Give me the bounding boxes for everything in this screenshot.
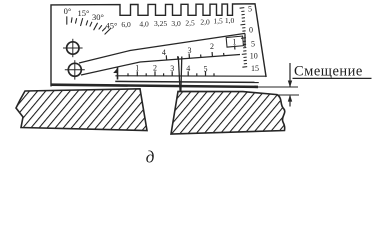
svg-text:Смещение: Смещение: [294, 64, 363, 80]
zero end tall tick: [117, 67, 119, 80]
svg-text:2: 2: [153, 64, 157, 73]
zero pointer wedge: [113, 68, 117, 73]
right plate top edge extension line: [277, 94, 299, 96]
right vertical scale ticks: [240, 8, 248, 68]
arm (movable ruler): [79, 33, 245, 75]
bottom scale numbers: [135, 64, 207, 74]
svg-text:15: 15: [251, 64, 259, 73]
svg-text:10: 10: [250, 51, 258, 60]
svg-text:1: 1: [233, 37, 237, 46]
svg-text:3: 3: [188, 46, 192, 55]
svg-text:3,25: 3,25: [154, 19, 167, 28]
gauge base thick line: [51, 85, 258, 87]
arm scale numbers: [162, 37, 237, 57]
svg-text:0°: 0°: [64, 6, 72, 16]
gauge lower edge line: [116, 81, 258, 82]
left workpiece (hatched): [16, 89, 147, 131]
svg-text:1: 1: [135, 64, 139, 73]
probe needle: [178, 57, 182, 92]
base extension line to dimension: [258, 86, 298, 88]
dimension up arrow: [288, 95, 292, 107]
right vertical scale labels: [248, 5, 259, 73]
fan tick 15deg: [81, 19, 83, 26]
svg-text:1,0: 1,0: [225, 16, 235, 25]
svg-text:3,0: 3,0: [171, 19, 181, 28]
comb value labels: [121, 16, 234, 29]
slider window on arm end: [226, 36, 243, 47]
bottom scale baseline ticks: [118, 67, 215, 80]
pivot hole upper: [63, 39, 83, 57]
svg-text:5: 5: [251, 40, 255, 49]
dimension down arrow: [288, 63, 292, 87]
svg-text:д: д: [146, 148, 155, 167]
gauge bottom face line / scale baseline: [116, 75, 266, 77]
svg-text:45°: 45°: [106, 21, 118, 31]
angle labels: [64, 6, 118, 30]
pivot hole lower: [65, 60, 85, 79]
svg-text:2,5: 2,5: [185, 18, 195, 27]
svg-text:3: 3: [170, 64, 174, 73]
gauge body outline: [51, 4, 266, 86]
svg-text:5: 5: [204, 64, 208, 73]
svg-text:2,0: 2,0: [200, 17, 210, 26]
svg-text:5: 5: [248, 5, 252, 14]
svg-text:0: 0: [249, 25, 253, 34]
right workpiece (hatched): [171, 91, 285, 134]
fan minor ticks 20,25: [86, 21, 87, 25]
angle fan tick 0deg: [67, 17, 111, 34]
fan tick 30deg: [94, 23, 98, 30]
svg-text:6,0: 6,0: [121, 20, 131, 29]
underline of label: [293, 77, 372, 79]
svg-text:2: 2: [210, 42, 214, 51]
svg-text:30°: 30°: [92, 12, 104, 22]
fan tick 45deg: [105, 29, 111, 34]
svg-text:15°: 15°: [78, 8, 90, 18]
arm scale ticks: [166, 46, 235, 60]
svg-text:1,5: 1,5: [213, 17, 223, 26]
fan minor ticks 5,10: [70, 18, 73, 23]
svg-text:4: 4: [186, 64, 190, 73]
svg-text:4,0: 4,0: [139, 20, 149, 29]
fan minor ticks 35,40: [99, 26, 102, 30]
svg-text:4: 4: [162, 48, 166, 57]
